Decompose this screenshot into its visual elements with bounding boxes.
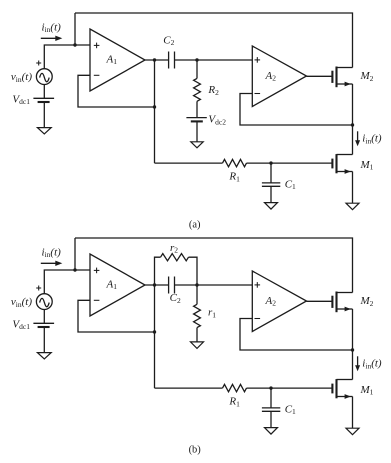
svg-text:iin(t): iin(t) — [42, 21, 62, 34]
svg-text:R1: R1 — [228, 171, 240, 184]
capacitor C2 plates, circuit (b) — [169, 277, 175, 294]
svg-text:(a): (a) — [189, 219, 201, 230]
wire: R1 to M1 gate, circuit (a) — [247, 162, 333, 164]
svg-text:Vdc1: Vdc1 — [12, 318, 30, 331]
wire: bottom rail from output drop to R1, circuit (b) — [155, 387, 223, 389]
ground below r1, circuit (b) — [191, 342, 204, 349]
wire: r2 loop left riser from A1 output node, circuit (b) — [155, 257, 161, 285]
svg-text:A2: A2 — [265, 70, 277, 83]
current arrow iin(t) input, circuit (a) — [41, 36, 63, 41]
op-amp A2 - input sign, circuit (a) — [255, 93, 261, 95]
op-amp A2 + input sign, circuit (b) — [255, 282, 261, 288]
source vin(t): AC source circle with sine, circuit (a) — [36, 69, 52, 85]
capacitor C2 plates, circuit (a) — [169, 52, 175, 69]
op-amp A2 triangle, circuit (b) — [252, 271, 306, 332]
wire: r1 to ground, circuit (b) — [196, 328, 198, 342]
transistor M2 drain lead, circuit (a) — [337, 67, 353, 69]
wire: top rail from input node riser to M2 drain, circuit (a) — [75, 13, 353, 68]
svg-text:r1: r1 — [208, 307, 216, 320]
node: A1 output junction, circuit (b) — [153, 283, 156, 286]
transistor M2 channel bar, circuit (b) — [335, 292, 337, 313]
wire: input horizontal from source to A1 + input, circuit (a) — [44, 45, 90, 69]
transistor M2 channel bar, circuit (a) — [335, 67, 337, 88]
op-amp A1 - input sign, circuit (a) — [94, 74, 100, 76]
wire: M2 source down to M1 drain, circuit (b) — [352, 309, 354, 380]
svg-text:Vdc2: Vdc2 — [208, 114, 226, 127]
wire: Vdc1 battery to ground, circuit (b) — [43, 327, 45, 353]
transistor M1 drain lead, circuit (a) — [337, 154, 353, 156]
battery Vdc1: short negative plate, circuit (a) — [38, 101, 50, 103]
node: R1 C1 junction, circuit (b) — [269, 386, 272, 389]
wire: vin source to Vdc1 battery, circuit (a) — [43, 85, 45, 99]
node: A1 feedback junction on output drop, circuit (a) — [153, 105, 156, 108]
resistor R1, circuit (b) — [223, 384, 247, 391]
svg-text:vin(t): vin(t) — [11, 71, 32, 84]
wire: M1 source to ground, circuit (a) — [352, 172, 354, 204]
polarity + sign above vin source, circuit (b) — [36, 286, 41, 291]
wire: M1 source to ground, circuit (b) — [352, 397, 354, 429]
wire: A2 feedback from - input to M2 source node, circuit (a) — [240, 94, 353, 126]
battery Vdc2: short negative plate, circuit (a) — [191, 120, 203, 122]
svg-text:C1: C1 — [285, 403, 296, 416]
node: M2 source / A2 feedback / M1 drain junction, circuit (b) — [351, 348, 354, 351]
ground below M1, circuit (a) — [346, 203, 359, 210]
svg-text:r2: r2 — [170, 242, 178, 255]
svg-text:iin(t): iin(t) — [42, 246, 62, 259]
node: input junction, circuit (a) — [73, 43, 76, 46]
op-amp A2 - input sign, circuit (b) — [255, 318, 261, 320]
node: junction after C2, circuit (a) — [195, 58, 198, 61]
battery Vdc1: long positive plate, circuit (b) — [33, 322, 54, 324]
battery Vdc1: long positive plate, circuit (a) — [33, 97, 54, 99]
transistor M1 source lead with arrow, circuit (b) — [337, 394, 353, 399]
ground below Vdc1, circuit (a) — [37, 128, 51, 134]
ground below Vdc2, circuit (a) — [191, 142, 203, 148]
capacitor C1 plates, circuit (b) — [262, 408, 280, 411]
wire: A1 unity feedback from - input down and right, circuit (a) — [78, 75, 155, 107]
wire: riser from input node up to top rail, circuit (b) — [74, 238, 76, 270]
wire: M2 source down to M1 drain, circuit (a) — [352, 84, 354, 155]
node: input junction, circuit (b) — [73, 268, 76, 271]
svg-text:iin(t): iin(t) — [362, 358, 382, 371]
op-amp A1 + input sign, circuit (b) — [94, 268, 100, 274]
wire: Vdc2 to ground, circuit (a) — [196, 121, 198, 141]
node: junction after C2, circuit (b) — [195, 283, 198, 286]
wire: A2 output to M2 gate, circuit (b) — [307, 300, 333, 302]
transistor M1 channel bar, circuit (b) — [335, 379, 337, 398]
svg-text:M2: M2 — [360, 70, 374, 83]
ground below Vdc1, circuit (b) — [37, 353, 51, 359]
wire: input horizontal from source to A1 + input, circuit (b) — [44, 270, 90, 294]
transistor M2 source lead with arrow, circuit (a) — [337, 82, 353, 87]
svg-text:iin(t): iin(t) — [362, 133, 382, 146]
wire: vertical drop from A1 output node to bottom rail, circuit (b) — [154, 285, 156, 388]
ground below C1, circuit (a) — [265, 203, 278, 210]
node: R1 C1 junction, circuit (a) — [269, 161, 272, 164]
wire: A1 output to C2 left plate, circuit (b) — [145, 284, 169, 286]
wire: node down to C1, circuit (a) — [270, 163, 272, 183]
wire: A1 unity feedback from - input down and right, circuit (b) — [78, 300, 155, 332]
wire: node down to r1, circuit (b) — [196, 285, 198, 304]
node: A1 feedback junction on output drop, circuit (b) — [153, 330, 156, 333]
ground below C1, circuit (b) — [265, 428, 278, 435]
svg-text:A1: A1 — [106, 53, 118, 66]
transistor M2 gate bar, circuit (b) — [331, 296, 333, 308]
op-amp A1 - input sign, circuit (b) — [94, 299, 100, 301]
transistor M1 drain lead, circuit (b) — [337, 379, 353, 381]
wire: node down to R2, circuit (a) — [196, 60, 198, 78]
resistor r1, circuit (b) — [194, 304, 201, 327]
wire: r2 loop right riser down to node after C2, circuit (b) — [189, 257, 198, 285]
wire: vertical drop from A1 output node to bottom rail, circuit (a) — [154, 60, 156, 163]
battery Vdc1: short negative plate, circuit (b) — [38, 326, 50, 328]
current arrow iin(t) output branch, circuit (b) — [355, 356, 360, 371]
source vin(t): AC source circle with sine, circuit (b) — [36, 294, 52, 310]
svg-text:R2: R2 — [207, 84, 219, 97]
svg-text:R1: R1 — [228, 396, 240, 409]
wire: A2 output to M2 gate, circuit (a) — [307, 75, 333, 77]
resistor r2, circuit (b) — [161, 254, 189, 261]
resistor R2, circuit (a) — [194, 78, 201, 101]
wire: C2 right plate to A2 + input, circuit (b) — [175, 284, 253, 286]
transistor M1 channel bar, circuit (a) — [335, 154, 337, 173]
battery Vdc2: long positive plate, circuit (a) — [186, 117, 206, 119]
op-amp A1 triangle, circuit (b) — [90, 254, 145, 316]
resistor R1, circuit (a) — [223, 159, 247, 166]
transistor M1 gate bar, circuit (b) — [331, 384, 333, 394]
wire: riser from input node up to top rail, circuit (a) — [74, 13, 76, 45]
svg-text:M2: M2 — [360, 295, 374, 308]
wire: C2 right plate to A2 + input, circuit (a) — [175, 59, 253, 61]
node: A1 output junction, circuit (a) — [153, 58, 156, 61]
op-amp A1 + input sign, circuit (a) — [94, 43, 100, 49]
transistor M1 gate bar, circuit (a) — [331, 159, 333, 169]
ground below M1, circuit (b) — [346, 428, 359, 435]
wire: C1 to ground, circuit (b) — [270, 411, 272, 427]
wire: bottom rail from output drop to R1, circuit (a) — [155, 162, 223, 164]
transistor M2 source lead with arrow, circuit (b) — [337, 307, 353, 312]
svg-text:C2: C2 — [163, 34, 174, 47]
transistor M2 drain lead, circuit (b) — [337, 292, 353, 294]
node: M2 source / A2 feedback / M1 drain junction, circuit (a) — [351, 123, 354, 126]
wire: C1 to ground, circuit (a) — [270, 186, 272, 202]
current arrow iin(t) output branch, circuit (a) — [355, 131, 360, 146]
op-amp A2 + input sign, circuit (a) — [255, 57, 261, 63]
svg-text:M1: M1 — [360, 159, 374, 172]
capacitor C1 plates, circuit (a) — [262, 183, 280, 186]
svg-text:C2: C2 — [170, 292, 181, 305]
op-amp A1 triangle, circuit (a) — [90, 29, 145, 91]
svg-text:Vdc1: Vdc1 — [12, 93, 30, 106]
wire: node down to C1, circuit (b) — [270, 388, 272, 408]
polarity + sign above vin source, circuit (a) — [36, 61, 41, 66]
wire: top rail from input node riser to M2 drain, circuit (b) — [75, 238, 353, 293]
svg-text:M1: M1 — [360, 384, 374, 397]
wire: A2 feedback from - input to M2 source node, circuit (b) — [240, 319, 353, 351]
svg-text:A1: A1 — [106, 278, 118, 291]
transistor M1 source lead with arrow, circuit (a) — [337, 169, 353, 174]
transistor M2 gate bar, circuit (a) — [331, 71, 333, 83]
current arrow iin(t) input, circuit (b) — [41, 261, 63, 266]
op-amp A2 triangle, circuit (a) — [252, 46, 306, 107]
wire: R2 to Vdc2 battery, circuit (a) — [196, 101, 198, 117]
svg-text:C1: C1 — [285, 178, 296, 191]
wire: R1 to M1 gate, circuit (b) — [247, 387, 333, 389]
wire: A1 output to C2 left plate, circuit (a) — [145, 59, 169, 61]
svg-text:(b): (b) — [189, 444, 202, 455]
svg-text:vin(t): vin(t) — [11, 296, 32, 309]
wire: vin source to Vdc1 battery, circuit (b) — [43, 310, 45, 324]
svg-text:A2: A2 — [265, 295, 277, 308]
wire: Vdc1 battery to ground, circuit (a) — [43, 102, 45, 128]
